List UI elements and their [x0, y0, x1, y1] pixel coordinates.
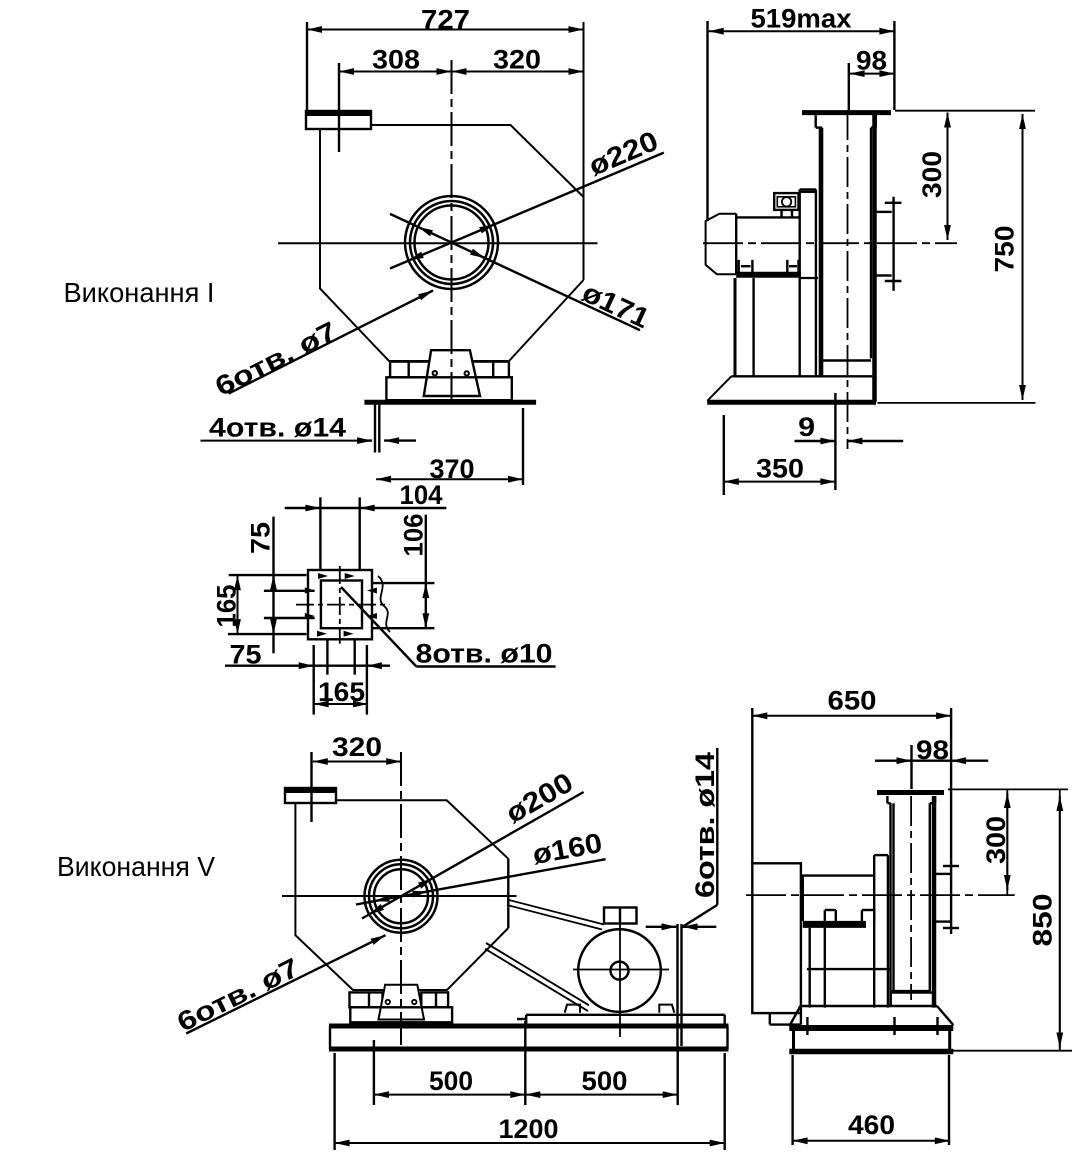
svg-text:500: 500 — [582, 1066, 628, 1096]
dimension 320 V text — [332, 732, 382, 762]
fan V vertical center line — [400, 752, 402, 1045]
dimension 106 text — [399, 514, 429, 557]
dimension 308/320 line — [339, 63, 584, 152]
svg-text:165: 165 — [212, 585, 242, 628]
dimension 320 V line — [312, 752, 402, 822]
dimension 75 top — [270, 517, 277, 654]
4otv o14 arrows — [357, 437, 416, 444]
dimension 519max text — [751, 4, 852, 34]
fan V inlet circle outer — [365, 860, 438, 933]
flange detail break squiggle — [378, 576, 390, 632]
fan V inlet circle inner — [374, 869, 428, 923]
svg-text:75: 75 — [246, 522, 276, 554]
fan V casing outline — [295, 800, 508, 990]
flange detail bolt line verticals top — [320, 497, 359, 570]
fan I foot upper blocks — [390, 362, 509, 378]
motor V hub circle — [611, 962, 629, 980]
fan I vertical center line — [451, 60, 453, 404]
dimension 104 — [285, 505, 447, 512]
side V motor stand — [807, 928, 891, 1008]
label Execution V (Виконання V) — [57, 851, 215, 882]
dimension 500 left text — [429, 1066, 473, 1096]
svg-text:4отв. ø14: 4отв. ø14 — [209, 413, 346, 443]
flange detail center vertical — [339, 566, 341, 644]
dimension 370 text — [430, 454, 475, 484]
dimension 98 V text — [916, 735, 949, 765]
label ø200 — [500, 766, 578, 829]
dimension 98 I text — [856, 46, 887, 76]
leader line ø220 — [390, 153, 664, 269]
leader line ø171 — [390, 214, 640, 330]
side I motor junction box — [774, 193, 798, 217]
dimension 850 — [1056, 789, 1063, 1050]
side V base tick marks — [807, 1017, 937, 1035]
svg-text:320: 320 — [493, 45, 541, 75]
fan I inlet circle outer — [405, 196, 498, 289]
side V casing vertical center line — [910, 796, 912, 1000]
dimension 1200 text — [499, 1114, 559, 1144]
flange detail outer square — [308, 570, 372, 639]
dimension 350 line — [724, 415, 836, 495]
side I casing body — [820, 115, 875, 402]
label ø220 — [584, 125, 662, 182]
motor V feet — [565, 1005, 675, 1013]
svg-text:165: 165 — [318, 677, 365, 707]
label 4otv o14 — [201, 413, 364, 443]
flange detail verticals below — [314, 640, 367, 715]
dimension 460 text — [848, 1110, 895, 1140]
svg-text:Виконання V: Виконання V — [57, 851, 215, 882]
dimension 850 text — [1028, 894, 1058, 947]
dimension 9 text — [798, 412, 815, 442]
6otv o14 V arrows — [646, 923, 717, 930]
motor V pulley box — [604, 908, 637, 924]
leader line ø200 — [362, 792, 584, 919]
side I outlet flange plate — [877, 197, 902, 291]
fan I casing outline — [320, 22, 584, 361]
dimension 165 left — [234, 575, 241, 634]
leader line 6otv o7 view I — [229, 291, 434, 394]
side V outlet flange plate — [936, 860, 959, 934]
svg-text:75: 75 — [230, 640, 262, 670]
flange detail center horizontal — [296, 604, 389, 606]
side V belt guard box — [752, 863, 801, 1024]
svg-text:460: 460 — [848, 1110, 895, 1140]
side V casing body — [891, 796, 935, 1008]
dimension 750 text — [990, 226, 1020, 273]
svg-text:8отв. ø10: 8отв. ø10 — [416, 639, 553, 669]
motor V sub-base — [517, 1015, 725, 1024]
label Execution I (Виконання I) — [64, 277, 215, 308]
dimension 308 text — [372, 45, 420, 75]
side I axis line — [703, 242, 957, 244]
dimension 98 V — [875, 745, 988, 789]
side I ground line right — [877, 402, 1035, 404]
svg-text:300: 300 — [981, 816, 1011, 864]
svg-text:850: 850 — [1028, 894, 1058, 947]
dimension 460 — [793, 1055, 950, 1145]
motor V circle — [578, 929, 661, 1012]
motor V center lines — [573, 924, 669, 1038]
svg-text:9: 9 — [798, 412, 815, 442]
dimension 165 bottom text — [318, 677, 365, 707]
dimension 9 — [795, 393, 904, 490]
fan I inlet duct flange — [306, 111, 371, 129]
dimension 300 I text — [917, 151, 947, 198]
dimension 519max line — [708, 21, 895, 221]
fan V horizontal center line — [282, 895, 517, 897]
dimension 650 text — [828, 686, 877, 716]
side I top flange bar — [802, 110, 891, 115]
4otv o14 hole slot — [375, 405, 379, 453]
label 6otv o7 view V — [172, 952, 304, 1037]
side I pedestal — [800, 189, 816, 376]
flange detail right ext lines — [372, 583, 434, 628]
svg-text:500: 500 — [429, 1066, 473, 1096]
dimension 300 V — [1004, 789, 1011, 894]
dimension 500 right — [525, 1021, 677, 1105]
fan V foot lower block — [350, 1007, 452, 1022]
dimension 370 line — [376, 408, 523, 485]
fan V foot trapezoid bracket — [379, 985, 425, 1020]
flange detail inner square — [321, 581, 362, 629]
dimension 98 I line — [849, 63, 895, 110]
side V axis line — [746, 894, 1015, 896]
flange detail 8 bolt hole marks — [305, 573, 377, 637]
svg-text:6отв. ø14: 6отв. ø14 — [690, 752, 720, 898]
dimension 1200 — [335, 1046, 725, 1150]
fan I horizontal center line — [278, 242, 598, 244]
belt upper pair — [507, 900, 604, 930]
side I base — [707, 376, 876, 402]
fan V foot upper blocks — [350, 992, 449, 1007]
dimension 350 text — [756, 454, 804, 484]
dimension 727 text — [421, 4, 470, 35]
dimension 300 I line — [944, 113, 951, 241]
label 6otv o14 V — [683, 748, 721, 927]
side I motor cap — [706, 214, 737, 275]
fan I inlet circle middle — [410, 201, 493, 284]
dimension 106 — [422, 515, 429, 629]
belt lower pair — [485, 943, 589, 1011]
dimension 750 line — [895, 111, 1035, 400]
label ø171 — [578, 277, 655, 335]
svg-text:750: 750 — [990, 226, 1020, 273]
dimension 727 line — [307, 22, 584, 111]
svg-text:98: 98 — [856, 46, 887, 76]
fan V inlet circle middle — [369, 864, 433, 928]
svg-text:308: 308 — [372, 45, 420, 75]
fan I foot trapezoid bracket — [424, 350, 480, 396]
side V top ext line — [948, 788, 1068, 790]
dimension 320 text — [493, 45, 541, 75]
svg-text:98: 98 — [916, 735, 949, 765]
svg-text:519max: 519max — [751, 4, 852, 34]
dimension 165 bottom — [314, 701, 368, 708]
leader line ø160 — [356, 859, 606, 904]
label ø160 — [530, 827, 604, 870]
svg-text:320: 320 — [332, 732, 382, 762]
svg-text:727: 727 — [421, 4, 470, 35]
side I motor feet — [739, 260, 799, 273]
svg-text:350: 350 — [756, 454, 804, 484]
leader 8otv o10 — [341, 587, 556, 667]
dimension 75 bottom text — [230, 640, 262, 670]
fan I inlet circle inner — [415, 206, 489, 280]
side V base — [789, 1006, 953, 1052]
dimension 165 left text — [212, 585, 242, 628]
side V top flange bar — [877, 790, 944, 795]
6otv o14 V hole slot — [678, 924, 682, 1046]
svg-text:650: 650 — [828, 686, 877, 716]
side V casing bottom block — [891, 993, 935, 1007]
fan I foot lower block — [386, 377, 511, 400]
flange detail left ext lines — [228, 575, 315, 634]
dimension 75 top text — [246, 522, 276, 554]
label 6otv o7 view I — [210, 316, 341, 402]
side I motor stand — [735, 278, 754, 376]
side I casing vertical center line — [847, 110, 849, 449]
dimension 75 bottom — [225, 662, 390, 669]
long base plate V — [329, 1026, 729, 1049]
leader line 6otv o7 view V — [186, 935, 385, 1033]
side V motor feet ticks — [825, 910, 874, 921]
dimension 104 text — [400, 480, 443, 510]
dimension 500 left — [374, 1040, 525, 1105]
side I motor body — [736, 217, 818, 278]
dimension 500 right text — [582, 1066, 628, 1096]
fan V inlet flange — [285, 788, 336, 803]
side V motor — [801, 876, 873, 925]
svg-text:1200: 1200 — [499, 1114, 559, 1144]
svg-text:104: 104 — [400, 480, 443, 510]
dimension 300 V text — [981, 816, 1011, 864]
fan I base plate (thick) — [364, 400, 536, 405]
svg-text:Виконання I: Виконання I — [64, 277, 215, 308]
svg-text:106: 106 — [399, 514, 429, 557]
side V pedestal — [874, 855, 888, 1008]
dimension 650 line — [752, 708, 951, 863]
side V duct neck — [887, 796, 935, 803]
side I duct neck — [816, 115, 876, 127]
label 8otv o10 — [416, 639, 553, 669]
side V ground ext line — [953, 1050, 1073, 1052]
svg-text:300: 300 — [917, 151, 947, 198]
